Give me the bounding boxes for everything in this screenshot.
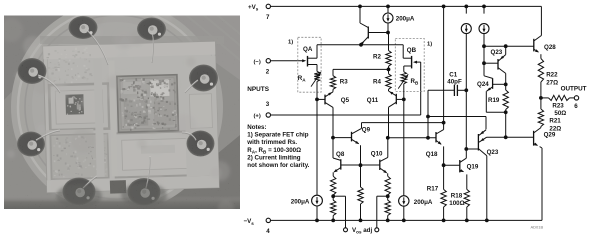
wire Q18 collector up to +V line — [443, 123, 445, 130]
svg-text:Q11: Q11 — [367, 97, 379, 104]
resistor Q10 emitter lower — [387, 195, 389, 200]
wire R19 node down to Q29 base line — [505, 112, 507, 137]
svg-text:QB: QB — [407, 47, 417, 54]
svg-text:100Ω: 100Ω — [449, 200, 464, 207]
node Q23 base / Q24 collector — [482, 61, 486, 65]
node R2 R4 junction — [388, 66, 390, 74]
svg-text:Q23: Q23 — [491, 49, 503, 56]
svg-text:3: 3 — [266, 101, 270, 108]
wire Q11 collector down to second stage node — [388, 107, 390, 138]
svg-text:Notes:: Notes: — [247, 124, 266, 131]
node Q23 emitter column on base line — [504, 44, 508, 48]
node Q23 collector / Q24 base / R19 top — [504, 83, 508, 87]
trimmed resistor RB — [403, 66, 405, 72]
terminal pin 7 +Vs — [266, 4, 270, 8]
node I3 / Q28 base line — [482, 44, 486, 48]
wire RB source column to tail current source — [403, 84, 405, 196]
svg-text:R3: R3 — [340, 79, 348, 86]
wire Q18 emitter to Q19 base — [444, 164, 460, 166]
svg-text:QA: QA — [303, 46, 313, 53]
svg-text:2) Current limiting: 2) Current limiting — [247, 154, 301, 161]
wire to Q9 base — [333, 137, 352, 139]
node Vos tap left — [331, 194, 335, 198]
node Q29 base line — [504, 135, 508, 139]
wire second stage input line to Q18 base — [388, 137, 436, 139]
svg-text:R4: R4 — [373, 79, 381, 86]
resistor Q8 emitter upper — [332, 172, 334, 176]
resistor R22 27ohm — [540, 54, 542, 58]
svg-text:R17: R17 — [427, 186, 439, 193]
svg-text:with trimmed Rs.: with trimmed Rs. — [246, 139, 297, 146]
wire (+) input rail — [271, 114, 421, 116]
svg-text:200μA: 200μA — [396, 15, 415, 22]
svg-text:Vos adj: Vos adj — [352, 227, 372, 235]
node C1 left column joins Q18 base line — [426, 136, 430, 140]
resistor Q8 emitter lower — [332, 195, 334, 200]
wire +V supply rail — [271, 5, 542, 7]
wire JFET drain rail — [317, 44, 403, 46]
terminal pin 4 -Vs — [266, 218, 270, 222]
svg-text:R18: R18 — [451, 193, 463, 200]
resistor R4 — [386, 74, 391, 90]
wire QA drain up to drain rail — [316, 45, 318, 58]
svg-text:RB: RB — [411, 78, 419, 86]
wire R3 top to R2/R4 node — [333, 68, 389, 70]
current source I1 200uA top — [386, 5, 390, 9]
terminal Vos adj right — [375, 228, 379, 232]
resistor R23 50ohm — [541, 97, 549, 99]
svg-text:Q19: Q19 — [467, 164, 479, 171]
wire +V column — [442, 5, 446, 9]
svg-text:RA: RA — [298, 75, 306, 83]
dashed box around QA and RA — [298, 37, 321, 92]
svg-text:R2: R2 — [373, 54, 381, 61]
svg-text:1) Separate FET chip: 1) Separate FET chip — [247, 132, 308, 139]
node Q5 collector / Q9 base / Q8 collector — [331, 136, 335, 140]
resistor R18 — [464, 189, 469, 207]
svg-text:R21: R21 — [549, 118, 561, 125]
wire I2 column down to Q19 collector node — [465, 34, 467, 149]
svg-text:Q18: Q18 — [426, 151, 438, 158]
wire Q24 emitter down to R19 bottom — [485, 91, 487, 112]
current source I4 200uA tail left — [312, 195, 323, 206]
dashed box around QB and RB — [395, 38, 424, 91]
svg-text:RA, RB = 100-300Ω: RA, RB = 100-300Ω — [247, 147, 301, 155]
wire Q5 collector down to mirror node — [332, 107, 334, 137]
transistor bias PNP top — [359, 6, 361, 23]
wire Q23 collector down to Q24 base node — [505, 73, 507, 84]
node drain rail / bias PNP emitter — [359, 43, 363, 47]
svg-text:OUTPUT: OUTPUT — [561, 86, 587, 93]
svg-text:not shown for clarity.: not shown for clarity. — [247, 162, 309, 169]
wire Vos adj tap right — [377, 195, 388, 197]
wire Vos adj tap left — [333, 195, 345, 197]
svg-text:1): 1) — [288, 40, 293, 46]
wire Q19 collector up — [465, 149, 467, 158]
wire (-) input to QA gate — [271, 60, 303, 62]
current source I3 top — [482, 5, 486, 9]
resistor R2 — [388, 33, 390, 51]
wire -V supply rail — [271, 219, 543, 221]
svg-text:NPUTS: NPUTS — [247, 86, 269, 93]
capacitor C1 40pF — [428, 89, 454, 91]
svg-text:+Vs: +Vs — [248, 4, 259, 12]
wire +V drop to Q28 collector — [540, 6, 542, 35]
node Q11/Q10 collectors / second stage input — [386, 136, 390, 140]
terminal pin 6 output — [574, 96, 578, 100]
svg-text:4: 4 — [266, 228, 270, 235]
svg-text:Q8: Q8 — [336, 151, 345, 158]
resistor Q10 emitter upper — [387, 173, 389, 176]
svg-text:27Ω: 27Ω — [546, 79, 558, 86]
wire RA source column to tail current source — [316, 81, 318, 195]
svg-text:6: 6 — [574, 103, 578, 110]
node Vos tap right — [386, 194, 390, 198]
svg-text:200μA: 200μA — [414, 199, 433, 206]
node +V column / Q9 collector line / Q18 collector — [442, 121, 446, 125]
svg-text:2: 2 — [266, 68, 270, 75]
svg-text:Q5: Q5 — [341, 97, 350, 104]
terminal Vos adj left — [344, 228, 348, 232]
svg-text:(−): (−) — [254, 59, 261, 65]
node QA source / Q5 base — [315, 98, 319, 102]
trimmed resistor RA — [316, 65, 318, 72]
wire Q23 lower collector to -V rail — [486, 156, 488, 221]
op-amp simplified schematic — [0, 0, 1, 1]
wire (+) rail riser to QB gate — [420, 62, 422, 115]
node R19 bottom / Q24 emitter — [504, 110, 508, 114]
svg-text:R23: R23 — [552, 103, 564, 110]
wire I3 column to Q23 base — [483, 46, 485, 63]
node C1 column / feedback line — [426, 115, 430, 119]
wire Q29 emitter drop to -V rail — [541, 148, 543, 220]
wire Q28 base line — [484, 45, 534, 47]
wire feedback line to Q23 emitter — [428, 116, 486, 118]
node Q18 emitter / R17 / Q19 base — [442, 163, 446, 167]
svg-text:50Ω: 50Ω — [554, 110, 566, 117]
svg-text:R19: R19 — [488, 97, 500, 104]
svg-text:40pF: 40pF — [447, 78, 462, 85]
node QB source / Q11 base — [402, 98, 406, 102]
svg-text:Q9: Q9 — [362, 127, 371, 134]
resistor R3 — [332, 69, 334, 75]
terminal pin 2 inverting input — [266, 59, 270, 63]
node bias PNP base / R2 top — [386, 31, 390, 35]
resistor mirror center to -V — [360, 165, 362, 187]
resistor R21 22ohm — [540, 98, 542, 109]
resistor R19 — [505, 84, 507, 90]
svg-text:−Vs: −Vs — [244, 218, 255, 226]
resistor R17 — [443, 165, 445, 189]
current source I5 200uA tail right — [399, 196, 409, 206]
svg-text:(+): (+) — [254, 114, 261, 120]
node mirror base line center — [359, 163, 363, 167]
svg-text:7: 7 — [266, 14, 270, 21]
node C1 right plate on I2 column — [464, 88, 468, 92]
svg-text:Q28: Q28 — [544, 44, 556, 51]
current source I2 top — [464, 5, 468, 9]
svg-text:R22: R22 — [546, 71, 558, 78]
wire Q9 collector to +V node line — [361, 123, 363, 129]
svg-text:Q24: Q24 — [477, 81, 489, 88]
svg-text:1): 1) — [427, 42, 432, 48]
wire Q10 collector up — [387, 138, 389, 158]
svg-text:Q23: Q23 — [487, 149, 499, 156]
svg-text:AD01B: AD01B — [531, 225, 544, 230]
wire QB drain up to drain rail — [402, 45, 404, 58]
svg-text:Q29: Q29 — [544, 132, 556, 139]
node output — [539, 96, 543, 100]
terminal pin 3 non-inverting input — [266, 113, 270, 117]
wire C1 left column — [427, 90, 429, 138]
svg-text:Q10: Q10 — [371, 150, 383, 157]
wire Q29 base line — [487, 136, 534, 138]
node Q19 collector / Q23 base — [464, 147, 468, 151]
svg-text:200μA: 200μA — [291, 198, 310, 205]
